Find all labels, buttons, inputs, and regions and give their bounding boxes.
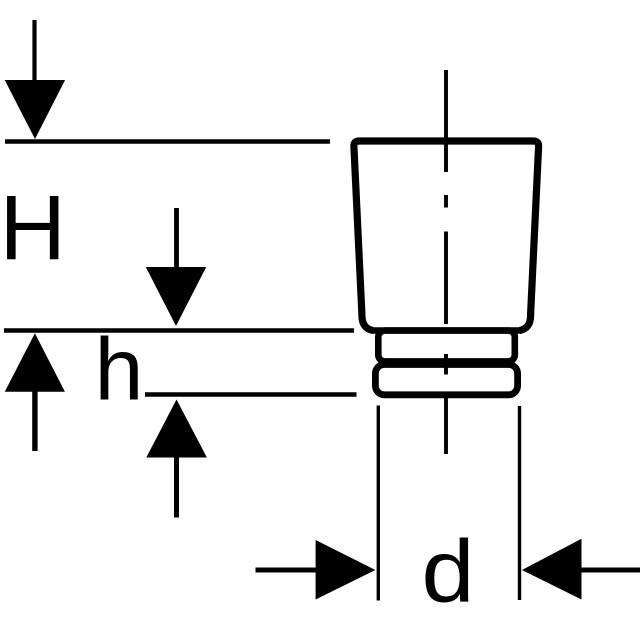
centerline (dash-dot axis) xyxy=(444,70,448,454)
dimension arrow h top (down arrow) xyxy=(146,208,206,326)
svg-text:h: h xyxy=(95,320,144,419)
extension line left (d) xyxy=(377,406,380,601)
dimension arrow h bottom (up arrow) xyxy=(146,400,207,518)
dimension line h bottom level xyxy=(145,392,357,396)
dimension arrow H bottom (up arrow) xyxy=(5,333,65,451)
cup base band 1 top edge (neck line) xyxy=(371,327,522,334)
dimension arrow H top (down arrow) xyxy=(5,20,65,139)
dimension line h top level (cup bottom) xyxy=(4,328,354,332)
dimension arrow d right (left-pointing) xyxy=(522,539,640,600)
cup base band 1 (upper ring) xyxy=(378,331,515,362)
svg-text:H: H xyxy=(0,178,66,280)
extension line right (d) xyxy=(518,406,521,600)
cup base band 2 (lower ring) xyxy=(375,365,517,395)
cup body outline (tumbler) xyxy=(354,141,539,331)
dimension arrow d left (right-pointing) xyxy=(256,540,376,600)
svg-text:d: d xyxy=(422,522,475,621)
dimension line H top level xyxy=(5,139,330,144)
